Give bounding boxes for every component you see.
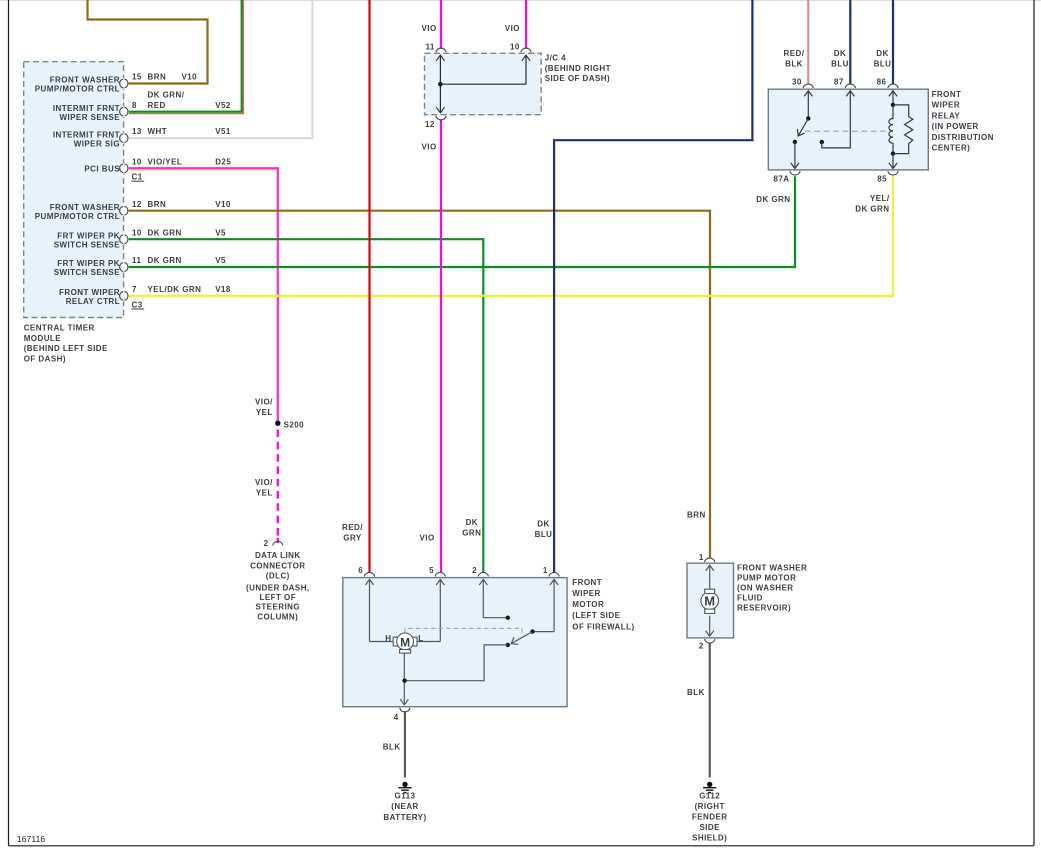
svg-text:DK GRN: DK GRN xyxy=(148,256,182,265)
CTM pin 11 connector xyxy=(120,262,128,273)
svg-text:(IN POWER: (IN POWER xyxy=(932,122,979,131)
wire DK BLU to relay pin 86 xyxy=(892,0,894,84)
svg-text:G113: G113 xyxy=(395,792,416,801)
relay linkage dashed xyxy=(805,130,887,132)
svg-text:SHIELD): SHIELD) xyxy=(692,833,727,842)
svg-text:BLK: BLK xyxy=(785,60,803,69)
svg-text:CONNECTOR: CONNECTOR xyxy=(250,562,305,571)
motor armature lines xyxy=(370,642,441,705)
svg-text:VIO: VIO xyxy=(422,24,437,33)
label VIO/YEL lower xyxy=(255,478,273,497)
motor caption xyxy=(572,578,634,631)
CTM pin 8 label row xyxy=(132,90,231,109)
motor pin 6 connector xyxy=(364,572,374,576)
svg-text:YEL: YEL xyxy=(256,408,273,417)
CTM pin 7 label row xyxy=(132,285,231,294)
label RED/BLK xyxy=(784,49,805,69)
svg-text:87: 87 xyxy=(834,78,844,87)
svg-text:12: 12 xyxy=(425,120,435,129)
svg-text:SIDE OF DASH): SIDE OF DASH) xyxy=(545,74,610,83)
svg-text:VIO: VIO xyxy=(422,143,437,152)
CTM pin 12 connector xyxy=(120,205,128,216)
svg-text:DK: DK xyxy=(537,519,549,528)
ground G112 caption xyxy=(692,792,728,843)
svg-text:MODULE: MODULE xyxy=(24,334,62,343)
svg-text:(NEAR: (NEAR xyxy=(391,802,419,811)
svg-text:YEL/: YEL/ xyxy=(870,194,890,203)
svg-text:RELAY CTRL: RELAY CTRL xyxy=(66,297,120,306)
label DK BLU motor pin1 xyxy=(535,519,553,539)
svg-text:VIO/: VIO/ xyxy=(255,478,273,487)
svg-text:(BEHIND LEFT SIDE: (BEHIND LEFT SIDE xyxy=(24,344,108,353)
svg-text:5: 5 xyxy=(429,566,434,575)
J/C4 pin 10 connector xyxy=(521,48,531,52)
svg-text:CENTER): CENTER) xyxy=(932,144,971,153)
svg-text:2: 2 xyxy=(472,566,477,575)
top hairline xyxy=(0,0,1041,2)
svg-text:87A: 87A xyxy=(773,174,789,183)
svg-text:DK: DK xyxy=(876,49,888,58)
relay pin 87A connector xyxy=(790,171,800,175)
wire VIO/YEL stub at DLC xyxy=(277,538,279,543)
svg-text:WIPER: WIPER xyxy=(932,101,960,110)
svg-text:11: 11 xyxy=(425,43,434,52)
relay pin 86 connector xyxy=(888,84,898,88)
svg-text:30: 30 xyxy=(792,78,802,87)
motor pin numbers xyxy=(358,566,548,722)
motor park switch blade xyxy=(407,632,533,681)
ground G113 caption xyxy=(383,792,426,822)
svg-text:BLK: BLK xyxy=(687,688,705,697)
svg-text:COLUMN): COLUMN) xyxy=(257,613,298,622)
wire VIO J/C4 pin 12 to motor pin 5 xyxy=(440,120,442,572)
washer pump pin 1 connector xyxy=(705,558,715,562)
CTM pin 11 label row xyxy=(132,256,226,265)
svg-text:1: 1 xyxy=(543,566,548,575)
central timer module caption xyxy=(24,323,108,363)
wire VIO/YEL yellow tracer xyxy=(129,169,277,171)
svg-text:15: 15 xyxy=(132,73,142,82)
svg-text:V18: V18 xyxy=(215,285,231,294)
svg-text:RED/: RED/ xyxy=(784,49,805,58)
central timer module box U1 xyxy=(24,62,124,318)
svg-text:(ON WASHER: (ON WASHER xyxy=(737,583,794,592)
label DK BLU pin86 xyxy=(874,49,892,69)
CTM pin 7 connector xyxy=(120,291,128,302)
relay pin numbers xyxy=(773,78,887,184)
svg-text:8: 8 xyxy=(132,101,137,110)
svg-text:OF DASH): OF DASH) xyxy=(24,355,66,364)
svg-text:VIO: VIO xyxy=(505,24,520,33)
wire DK GRN/RED V52 pin8 to top xyxy=(129,0,242,112)
svg-text:FRONT WIPER: FRONT WIPER xyxy=(59,288,120,297)
wire DK GRN V5 pin10b to motor pin2 xyxy=(129,239,484,572)
svg-text:BLU: BLU xyxy=(831,60,849,69)
wire BLK motor pin4 to G113 xyxy=(404,712,406,777)
wire DK BLU to relay pin 87 xyxy=(849,0,851,84)
svg-text:BLK: BLK xyxy=(383,743,401,752)
svg-text:V5: V5 xyxy=(215,228,226,237)
relay caption xyxy=(932,90,994,153)
CTM pin 12 label row xyxy=(132,200,231,209)
svg-text:DK GRN: DK GRN xyxy=(855,205,889,214)
wire WHT V51 pin13 to top xyxy=(129,0,313,138)
svg-text:RELAY: RELAY xyxy=(932,111,961,120)
washer pump internal wire top xyxy=(709,565,711,589)
motor M symbol xyxy=(385,633,423,653)
wire YEL/DK GRN V18 pin7 to relay 85 xyxy=(129,176,893,296)
wire BRN V10 pin12 to washer pump xyxy=(129,211,710,559)
frame right border xyxy=(1033,0,1035,846)
svg-text:13: 13 xyxy=(132,127,142,136)
svg-text:(BEHIND RIGHT: (BEHIND RIGHT xyxy=(545,64,611,73)
svg-text:G112: G112 xyxy=(699,792,720,801)
data link connector caption xyxy=(246,551,310,622)
svg-text:GRY: GRY xyxy=(343,533,362,542)
svg-text:FRONT: FRONT xyxy=(932,90,962,99)
svg-text:PUMP/MOTOR CTRL: PUMP/MOTOR CTRL xyxy=(35,212,120,221)
svg-text:(DLC): (DLC) xyxy=(266,572,290,581)
svg-text:DK GRN/: DK GRN/ xyxy=(148,90,185,99)
J/C4 pin 11 connector xyxy=(436,48,446,52)
svg-text:VIO/YEL: VIO/YEL xyxy=(148,157,183,166)
svg-text:FENDER: FENDER xyxy=(692,813,728,822)
svg-text:7: 7 xyxy=(132,285,137,294)
svg-text:LEFT OF: LEFT OF xyxy=(260,593,296,602)
svg-text:FRT WIPER PK: FRT WIPER PK xyxy=(57,259,120,268)
washer pump pin 2 connector xyxy=(705,639,715,643)
svg-text:10: 10 xyxy=(510,43,520,52)
CTM pin 13 connector xyxy=(120,133,128,144)
relay pin 30 connector xyxy=(803,84,813,88)
wire RED/GRY to motor pin 6 xyxy=(368,0,370,572)
svg-text:VIO/: VIO/ xyxy=(255,398,273,407)
svg-text:10: 10 xyxy=(132,157,142,166)
svg-text:YEL: YEL xyxy=(256,489,273,498)
CTM pin 8 connector xyxy=(120,106,128,117)
wire DK BLU to motor pin 1 xyxy=(554,0,752,572)
label DK BLU pin87 xyxy=(831,49,849,69)
svg-text:BRN: BRN xyxy=(148,200,167,209)
ground G112 symbol xyxy=(703,782,716,793)
svg-text:MOTOR: MOTOR xyxy=(572,600,604,609)
svg-text:WIPER SENSE: WIPER SENSE xyxy=(59,113,120,122)
label VIO/YEL upper xyxy=(255,398,273,417)
svg-text:STEERING: STEERING xyxy=(256,603,301,612)
relay switch 30-87A xyxy=(793,91,811,169)
svg-text:DISTRIBUTION: DISTRIBUTION xyxy=(932,133,994,142)
svg-text:RED: RED xyxy=(148,101,166,110)
svg-text:85: 85 xyxy=(877,174,887,183)
svg-text:167116: 167116 xyxy=(17,834,46,844)
svg-text:FRONT WASHER: FRONT WASHER xyxy=(737,563,807,572)
svg-text:DATA LINK: DATA LINK xyxy=(255,551,301,560)
svg-text:PUMP MOTOR: PUMP MOTOR xyxy=(737,573,796,582)
svg-text:VIO: VIO xyxy=(420,534,435,543)
svg-text:DK GRN: DK GRN xyxy=(148,228,182,237)
wire BRN V10 pin15 to top xyxy=(88,0,208,84)
svg-text:BRN: BRN xyxy=(148,73,167,82)
wire DK GRN V5 pin11 to relay 87A xyxy=(129,176,795,267)
svg-text:12: 12 xyxy=(132,200,142,209)
svg-text:BLU: BLU xyxy=(874,60,892,69)
washer pump caption xyxy=(737,563,807,612)
relay coil 86-85 xyxy=(889,91,895,169)
motor pin 5 connector xyxy=(435,572,445,576)
CTM pin 15 connector xyxy=(120,78,128,89)
svg-text:FRONT WASHER: FRONT WASHER xyxy=(50,76,120,85)
relay resistor xyxy=(893,105,913,154)
CTM pin 15 label row xyxy=(132,73,197,82)
splice S200 xyxy=(275,421,280,426)
svg-text:FRONT WASHER: FRONT WASHER xyxy=(50,203,120,212)
connector C3 label xyxy=(132,300,145,309)
relay pin 85 connector xyxy=(888,171,898,175)
svg-text:BLU: BLU xyxy=(535,530,553,539)
CTM pin 10 PCI connector xyxy=(120,163,128,174)
svg-text:WIPER: WIPER xyxy=(572,589,600,598)
svg-text:S200: S200 xyxy=(284,421,305,430)
ground G113 symbol xyxy=(398,782,411,793)
svg-text:SWITCH SENSE: SWITCH SENSE xyxy=(54,268,121,277)
connector C1 label xyxy=(132,173,145,182)
svg-text:FLUID: FLUID xyxy=(737,593,763,602)
svg-text:DK GRN: DK GRN xyxy=(756,195,790,204)
J/C4 pin labels xyxy=(425,43,520,129)
svg-text:V10: V10 xyxy=(182,73,198,82)
front wiper motor box M1 xyxy=(343,578,567,707)
J/C4 pin 12 connector xyxy=(436,116,446,120)
svg-text:INTERMIT FRNT: INTERMIT FRNT xyxy=(53,104,120,113)
svg-text:DK: DK xyxy=(834,49,846,58)
wire VIO/YEL dashed to DLC xyxy=(277,430,279,544)
frame bottom border xyxy=(9,845,1035,847)
svg-text:4: 4 xyxy=(394,713,399,722)
svg-text:(LEFT SIDE: (LEFT SIDE xyxy=(572,611,620,620)
svg-text:BRN: BRN xyxy=(687,511,706,520)
svg-text:2: 2 xyxy=(699,642,704,651)
motor linkage dashed xyxy=(405,628,522,633)
washer pump internal wire bottom xyxy=(709,616,711,637)
svg-text:WIPER SIG: WIPER SIG xyxy=(74,139,120,148)
svg-text:INTERMIT FRNT: INTERMIT FRNT xyxy=(53,130,120,139)
label YEL/DK GRN 85 xyxy=(855,194,890,214)
svg-text:GRN: GRN xyxy=(462,528,481,537)
motor pin 2 internal xyxy=(483,579,510,620)
svg-text:11: 11 xyxy=(132,256,141,265)
svg-text:1: 1 xyxy=(699,553,704,562)
motor pin 1 connector xyxy=(549,572,559,576)
svg-text:L: L xyxy=(418,634,423,643)
CTM pin 13 label row xyxy=(132,127,231,136)
svg-text:10: 10 xyxy=(132,228,142,237)
DLC pin 2 connector xyxy=(273,541,283,545)
svg-text:V51: V51 xyxy=(215,127,231,136)
CTM pin 10 PCI label row xyxy=(132,157,231,166)
CTM pin 10b label row xyxy=(132,228,226,237)
CTM pin 10b connector xyxy=(120,234,128,245)
svg-text:M: M xyxy=(400,635,410,649)
svg-text:(UNDER DASH,: (UNDER DASH, xyxy=(246,583,310,592)
washer pump pin numbers xyxy=(699,553,704,651)
label DK GRN motor pin2 xyxy=(462,518,481,538)
svg-text:SIDE: SIDE xyxy=(699,823,720,832)
front wiper relay box K1 xyxy=(768,89,928,170)
wire BLK washer pin2 to G112 xyxy=(709,644,711,778)
wire VIO to J/C4 pin 10 xyxy=(525,0,527,48)
svg-text:FRT WIPER PK: FRT WIPER PK xyxy=(57,231,120,240)
svg-text:(RIGHT: (RIGHT xyxy=(695,802,725,811)
svg-text:PUMP/MOTOR CTRL: PUMP/MOTOR CTRL xyxy=(35,85,120,94)
junction box J/C4 xyxy=(425,53,542,114)
motor pin 1 internal xyxy=(530,579,554,633)
svg-text:OF FIREWALL): OF FIREWALL) xyxy=(572,622,634,631)
svg-text:V52: V52 xyxy=(215,101,231,110)
svg-text:CENTRAL TIMER: CENTRAL TIMER xyxy=(24,323,95,332)
svg-text:RESERVOIR): RESERVOIR) xyxy=(737,603,791,612)
motor pin 6 internal xyxy=(369,579,371,641)
svg-text:H: H xyxy=(385,634,391,643)
svg-text:V10: V10 xyxy=(215,200,231,209)
front washer pump motor box M2 xyxy=(687,563,734,638)
svg-text:BATTERY): BATTERY) xyxy=(383,813,426,822)
motor pin 2 connector xyxy=(478,572,488,576)
wire RED/BLK to relay pin 30 xyxy=(807,0,809,84)
svg-text:2: 2 xyxy=(264,539,269,548)
svg-text:C3: C3 xyxy=(132,300,143,309)
wire VIO/YEL D25 pin10 to S200 xyxy=(129,168,278,421)
motor pin 5 internal xyxy=(439,579,441,641)
svg-text:M: M xyxy=(704,594,715,609)
J/C4 caption xyxy=(545,54,611,83)
svg-text:DK: DK xyxy=(466,518,478,527)
frame left border xyxy=(8,0,10,846)
svg-text:WHT: WHT xyxy=(148,127,168,136)
svg-text:D25: D25 xyxy=(215,157,231,166)
svg-text:C1: C1 xyxy=(132,173,143,182)
motor pin 4 connector xyxy=(400,708,410,712)
svg-text:FRONT: FRONT xyxy=(572,578,602,587)
washer pump M symbol xyxy=(701,589,719,613)
relay contact 87 xyxy=(820,91,851,148)
svg-text:PCI BUS: PCI BUS xyxy=(84,165,120,174)
J/C4 internal bus xyxy=(438,55,526,113)
svg-text:J/C 4: J/C 4 xyxy=(545,54,566,63)
svg-text:6: 6 xyxy=(358,566,363,575)
relay pin 87 connector xyxy=(845,84,855,88)
wire DK GRN/RED V52 red tracer xyxy=(129,0,244,114)
svg-text:V5: V5 xyxy=(215,256,226,265)
label RED/GRY xyxy=(342,523,363,543)
svg-text:RED/: RED/ xyxy=(342,523,363,532)
wire VIO to J/C4 pin 11 xyxy=(440,0,442,48)
svg-text:YEL/DK GRN: YEL/DK GRN xyxy=(148,285,202,294)
svg-text:SWITCH SENSE: SWITCH SENSE xyxy=(54,240,121,249)
svg-text:86: 86 xyxy=(877,78,887,87)
